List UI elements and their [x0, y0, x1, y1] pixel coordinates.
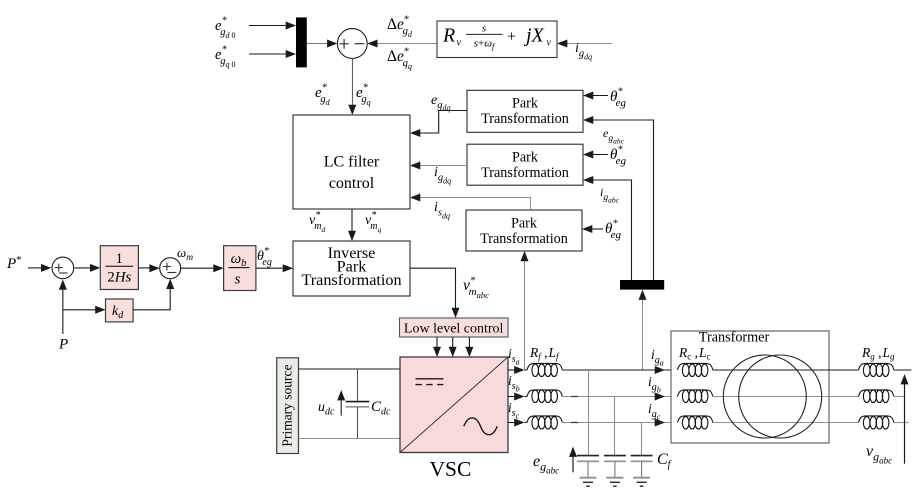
wire i_sdq Park3 to LC filter	[417, 198, 531, 211]
wire theta3 into Park3	[589, 228, 603, 230]
wire cap branch c	[641, 423, 643, 456]
svg-text:Δe*gd: Δe*gd	[387, 15, 413, 40]
svg-text:e*gd0: e*gd0	[215, 16, 235, 41]
svg-text:igdq: igdq	[434, 165, 451, 186]
svg-text:θ*eg: θ*eg	[610, 87, 627, 110]
svg-text:1: 1	[116, 251, 124, 267]
wire L1 to 1/2Hs	[74, 267, 93, 269]
inductor Rc,Lc phase c	[678, 416, 713, 429]
block Low level control	[400, 318, 509, 337]
wire e_gabc from bus bar up into Park1	[590, 120, 654, 280]
VSC dc symbol	[416, 378, 444, 380]
wire transformer phase b	[713, 396, 859, 398]
svg-text:Transformation: Transformation	[481, 111, 569, 127]
svg-text:e*gd: e*gd	[315, 83, 331, 108]
wire Inverse Park to Low level control	[410, 268, 456, 311]
ground phase c	[633, 477, 650, 479]
capacitor Cdc	[357, 369, 359, 401]
measurement bus bar bottom	[620, 280, 664, 290]
arrow i_gc	[655, 419, 665, 427]
svg-text:Transformation: Transformation	[301, 271, 401, 289]
svg-text:e*gq0: e*gq0	[215, 45, 235, 70]
ground phase a	[580, 477, 597, 479]
wire filter to transformer phase c	[562, 422, 671, 424]
block Park Transformation 1	[467, 90, 583, 132]
svg-text:Rf ,Lf: Rf ,Lf	[529, 345, 560, 362]
inductor Rc,Lc phase b	[678, 390, 713, 403]
wire dc link top	[299, 368, 401, 370]
VSC diagonal	[400, 357, 508, 453]
svg-text:θ*eg: θ*eg	[610, 145, 627, 168]
svg-text:v: v	[457, 38, 462, 49]
svg-text:igc: igc	[648, 401, 661, 422]
wire gate signal 3	[468, 337, 470, 351]
wire P* to summing L1	[28, 267, 44, 269]
svg-text:Δe*qq: Δe*qq	[387, 47, 412, 72]
summing junction S1	[337, 29, 367, 59]
svg-text:jX: jX	[523, 25, 545, 47]
svg-text:VSC: VSC	[430, 457, 472, 481]
wire summing junction to LC filter	[352, 58, 354, 109]
wire VSC output phase a	[508, 369, 518, 371]
wire VSC output phase b	[508, 396, 518, 398]
svg-text:θ*eg: θ*eg	[257, 246, 272, 268]
svg-text:Park: Park	[511, 216, 538, 232]
block VSC converter	[400, 357, 508, 453]
block Park Transformation 2	[467, 144, 583, 185]
wire i_sabc from phase a up into Park3	[524, 256, 526, 370]
svg-text:Rg ,Lg: Rg ,Lg	[861, 345, 895, 362]
wire mux to summing junction	[307, 43, 330, 45]
mux bar top	[296, 17, 307, 67]
wire gate signal 1	[436, 337, 438, 351]
capacitor Cf phase a	[577, 455, 599, 457]
block kd	[106, 299, 134, 322]
svg-text:egabc: egabc	[603, 126, 625, 146]
svg-text:udc: udc	[318, 400, 335, 418]
svg-text:Transformation: Transformation	[481, 165, 569, 181]
block omega_b/s	[224, 246, 256, 291]
wire theta2 into Park2	[590, 154, 608, 156]
svg-text:Park: Park	[512, 150, 539, 166]
block Rv s/(s+wf)+jXv	[437, 21, 557, 58]
wire Rv box to summing junction	[367, 43, 437, 45]
wire VSC output phase c	[508, 422, 518, 424]
wire e*_gd0 to mux	[249, 25, 289, 27]
svg-text:θ*eg: θ*eg	[605, 219, 622, 242]
wire LC filter to Inverse Park	[351, 209, 353, 235]
svg-text:Transformation: Transformation	[480, 231, 568, 247]
inductor Rc,Lc phase a	[678, 363, 713, 376]
block 1/2Hs	[100, 246, 138, 290]
svg-text:Transformer: Transformer	[699, 330, 770, 346]
block Primary source	[277, 358, 299, 454]
wire i_gdq Park2 to LC filter	[417, 165, 467, 167]
wire grid tail b	[894, 396, 905, 398]
wire omega_b/s to Inverse Park	[256, 267, 286, 269]
transformer winding circle right	[739, 355, 822, 438]
svg-text:2Hs: 2Hs	[107, 270, 131, 286]
svg-text:isc: isc	[508, 400, 520, 421]
svg-text:+: +	[507, 29, 516, 46]
wire i_gabc from bus bar up into Park2	[590, 180, 632, 280]
svg-text:igabc: igabc	[600, 185, 620, 205]
svg-text:Low level control: Low level control	[404, 322, 504, 337]
svg-text:Cdc: Cdc	[371, 399, 391, 418]
wire e*_gq0 to mux	[249, 53, 289, 55]
svg-text:R: R	[442, 25, 455, 47]
inductor Rg,Lg phase b	[859, 390, 894, 403]
inductor Rg,Lg phase c	[859, 416, 894, 429]
inductor Rf,Lf phase c	[527, 416, 562, 429]
svg-text:isb: isb	[508, 373, 520, 394]
svg-text:v: v	[547, 38, 552, 49]
summing junction L1	[52, 257, 74, 279]
block Park Transformation 3	[466, 210, 582, 251]
svg-text:P: P	[58, 337, 68, 353]
svg-text:Cf: Cf	[657, 451, 672, 471]
svg-text:igb: igb	[648, 374, 661, 395]
wire e_gdq Park1 to LC filter	[417, 111, 467, 134]
wire P branch to kd	[63, 309, 98, 311]
wire dc link bottom	[299, 438, 401, 440]
svg-text:ωm: ωm	[177, 245, 193, 263]
svg-text:LC filter: LC filter	[324, 154, 380, 171]
wire from phase a up to bus bar	[642, 294, 644, 370]
wire transformer phase a	[713, 369, 859, 371]
svg-text:isdq: isdq	[434, 200, 450, 221]
svg-text:iga: iga	[651, 347, 664, 368]
capacitor Cf phase b	[604, 455, 626, 457]
ground phase b	[606, 477, 623, 479]
wire filter to transformer phase a	[562, 369, 671, 371]
summing junction L2	[160, 258, 181, 279]
svg-text:P*: P*	[6, 254, 22, 272]
svg-text:egabc: egabc	[533, 453, 559, 476]
block Inverse Park Transformation	[293, 241, 410, 296]
svg-text:v*md: v*md	[309, 210, 325, 234]
svg-text:s: s	[235, 272, 241, 288]
block LC filter control	[293, 115, 410, 209]
inductor Rf,Lf phase a	[527, 363, 562, 376]
svg-text:egdq: egdq	[431, 93, 450, 113]
VSC ac symbol sine	[464, 418, 497, 435]
wire cap branch a	[588, 370, 590, 456]
wire grid tail a	[894, 369, 912, 371]
svg-text:v*mabc: v*mabc	[463, 276, 489, 301]
wire theta1 into Park1	[590, 95, 608, 97]
svg-text:s: s	[482, 23, 486, 35]
svg-text:Primary source: Primary source	[280, 364, 295, 446]
wire kd to L2	[133, 284, 170, 310]
inductor Rf,Lf phase b	[527, 390, 562, 403]
svg-text:isa: isa	[508, 346, 520, 367]
svg-text:vgabc: vgabc	[866, 443, 892, 466]
svg-text:v*mq: v*mq	[365, 210, 381, 234]
svg-text:control: control	[329, 175, 375, 192]
svg-text:Park: Park	[512, 96, 539, 112]
capacitor Cf phase c	[631, 455, 653, 457]
wire 1/2Hs to summing L2	[138, 267, 153, 269]
arrow i_gb	[655, 393, 665, 401]
transformer winding circle left	[723, 355, 806, 438]
wire grid tail c	[894, 422, 909, 424]
wire transformer phase c	[713, 422, 859, 424]
svg-text:Rc ,Lc: Rc ,Lc	[678, 345, 711, 362]
inductor Rg,Lg phase a	[859, 363, 894, 376]
wire i_gdq into Rv box	[557, 43, 612, 45]
transformer box	[671, 331, 829, 443]
wire P up into L1	[62, 285, 64, 334]
arrow i_ga	[655, 366, 665, 374]
svg-text:e*gq: e*gq	[356, 83, 371, 108]
wire L2 to omega_b/s	[181, 267, 217, 269]
svg-text:igdq: igdq	[575, 41, 592, 62]
wire gate signal 2	[452, 337, 454, 351]
wire filter to transformer phase b	[562, 396, 671, 398]
wire cap branch b	[614, 397, 616, 456]
